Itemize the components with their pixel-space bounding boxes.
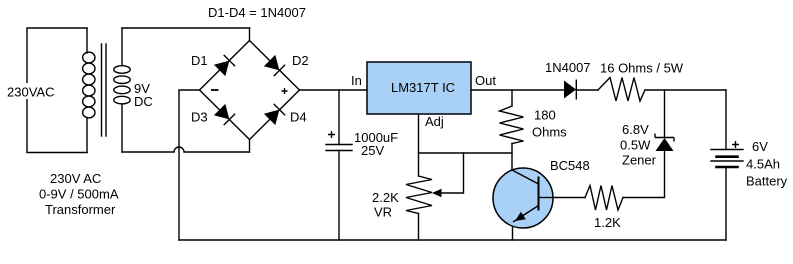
potentiometer VR1 bottom lead <box>418 214 420 241</box>
wire secondary top to bridge <box>122 27 250 29</box>
svg-text:0-9V / 500mA: 0-9V / 500mA <box>39 187 119 202</box>
svg-text:230V AC: 230V AC <box>50 171 101 186</box>
transformer T1 core <box>102 44 107 136</box>
transistor Q1 base lead inside <box>539 197 554 199</box>
transformer T1 primary bottom lead <box>86 118 88 153</box>
svg-text:1.2K: 1.2K <box>594 215 621 230</box>
svg-text:1N4007: 1N4007 <box>545 60 591 75</box>
wire bridge plus node to LM317 In <box>300 89 368 91</box>
wire ground bottom rail <box>179 239 726 241</box>
transistor Q1 collector line inside <box>512 170 539 184</box>
svg-text:Adj: Adj <box>425 114 444 129</box>
LM317 Adj pin wire <box>419 114 513 153</box>
wire bridge bottom lead <box>249 140 251 153</box>
svg-text:D1: D1 <box>191 53 208 68</box>
svg-text:4.5Ah: 4.5Ah <box>746 157 780 172</box>
battery BT1 top lead <box>725 90 727 150</box>
transistor Q1 emitter line <box>513 206 539 223</box>
svg-text:230VAC: 230VAC <box>7 85 54 100</box>
transformer T1 primary loop left side <box>27 28 87 153</box>
potentiometer VR1 top lead <box>418 153 420 176</box>
svg-text:6V: 6V <box>752 139 768 154</box>
svg-text:LM317T IC: LM317T IC <box>391 80 455 95</box>
bridge minus sign <box>211 89 219 91</box>
svg-text:D2: D2 <box>292 53 309 68</box>
svg-text:D4: D4 <box>290 110 307 125</box>
wire R2 to battery top <box>645 89 726 91</box>
svg-text:6.8V: 6.8V <box>622 122 649 137</box>
transistor Q1 collector entry <box>512 170 539 184</box>
svg-text:Out: Out <box>475 73 496 88</box>
diode D5 1N4007 output <box>564 80 576 100</box>
transformer T1 secondary top lead <box>121 28 123 65</box>
bridge diode D4 <box>264 104 285 125</box>
zener diode ZD1 <box>655 134 674 152</box>
bridge diode D3 <box>214 104 235 125</box>
potentiometer VR1 zigzag <box>406 176 432 214</box>
svg-text:In: In <box>351 73 362 88</box>
resistor R1 180 Ohms zigzag <box>500 106 524 144</box>
wire secondary bottom to bridge bottom with hop over minus wire <box>122 147 250 152</box>
svg-text:VR: VR <box>374 205 392 220</box>
bridge diode D1 <box>214 55 235 76</box>
wire bridge minus node to ground rail <box>179 90 200 240</box>
transformer T1 primary top lead <box>86 28 88 53</box>
resistor R2 16 Ohms zigzag <box>598 78 645 102</box>
potentiometer VR1 wiper arrowhead <box>432 189 442 198</box>
transistor Q1 emitter lead to ground <box>512 224 514 240</box>
svg-text:180: 180 <box>534 108 556 123</box>
svg-text:16 Ohms / 5W: 16 Ohms / 5W <box>600 61 684 76</box>
zener ZD1 bottom lead <box>623 151 665 198</box>
transistor Q1 emitter line inside <box>513 206 539 223</box>
battery BT1 plates <box>711 149 743 151</box>
wire bridge top lead <box>249 28 251 41</box>
svg-text:Battery: Battery <box>746 174 788 189</box>
wire LM317 Out rail <box>471 89 564 91</box>
svg-text:2.2K: 2.2K <box>372 190 399 205</box>
svg-text:25V: 25V <box>361 143 384 158</box>
battery plus sign <box>732 141 739 148</box>
resistor R1 180 Ohms top lead <box>511 90 513 106</box>
battery BT1 bottom lead <box>725 167 727 240</box>
capacitor C1 plus sign <box>328 131 335 138</box>
transformer T1 secondary bottom lead <box>121 104 123 152</box>
bridge rectifier diamond <box>200 41 300 140</box>
svg-text:Transformer: Transformer <box>45 202 116 217</box>
capacitor C1 leads <box>338 90 340 240</box>
transistor Q1 emitter arrowhead <box>515 212 526 221</box>
op-amp U1 LM317T regulator body <box>367 62 471 114</box>
svg-text:Zener: Zener <box>622 153 657 168</box>
transformer T1 secondary winding <box>114 66 130 104</box>
wire diode D5 to resistor R2 <box>576 89 598 91</box>
potentiometer VR1 wiper wire <box>441 153 464 193</box>
transistor Q1 base bar <box>538 177 540 211</box>
transistor Q1 BC548 body circle <box>493 168 553 228</box>
bridge plus sign <box>282 88 288 94</box>
resistor R3 1.2K zigzag <box>585 186 623 211</box>
svg-text:D3: D3 <box>191 110 208 125</box>
capacitor C1 plates <box>326 145 352 151</box>
zener ZD1 top lead <box>664 90 666 138</box>
svg-text:DC: DC <box>134 94 153 109</box>
svg-text:Ohms: Ohms <box>532 125 567 140</box>
bridge diode D2 <box>264 55 285 76</box>
svg-text:0.5W: 0.5W <box>620 138 651 153</box>
transformer T1 primary winding <box>83 52 95 118</box>
label 230VAC with white gap over primary left edge <box>5 83 57 100</box>
svg-text:D1-D4 = 1N4007: D1-D4 = 1N4007 <box>208 5 306 20</box>
svg-text:BC548: BC548 <box>550 158 590 173</box>
transistor Q1 base wire to R3 <box>539 197 586 199</box>
transistor Q1 base bar inside <box>538 177 540 211</box>
resistor R1 bottom lead to Q1 collector <box>511 144 513 171</box>
